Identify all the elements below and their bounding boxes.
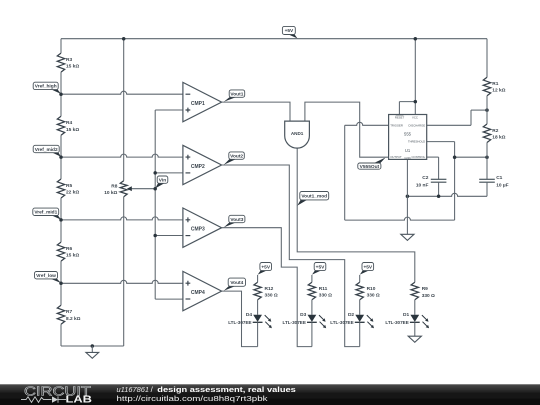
svg-text:555: 555	[404, 131, 412, 136]
svg-text:R12: R12	[265, 286, 274, 292]
svg-text:15 kΩ: 15 kΩ	[66, 253, 79, 259]
svg-text:R4: R4	[66, 120, 72, 126]
svg-text:15 kΩ: 15 kΩ	[66, 127, 79, 133]
svg-text:10 µF: 10 µF	[496, 183, 508, 189]
svg-text:+5V: +5V	[316, 264, 325, 270]
svg-text:330 Ω: 330 Ω	[265, 293, 278, 299]
svg-text:R8: R8	[111, 184, 117, 190]
svg-text:CONTROL: CONTROL	[412, 155, 426, 159]
svg-text:330 Ω: 330 Ω	[367, 293, 380, 299]
svg-text:LTL-307EE: LTL-307EE	[385, 320, 408, 325]
svg-text:Vout1_mod: Vout1_mod	[301, 193, 327, 199]
svg-text:D3: D3	[300, 312, 306, 318]
svg-text:CMP1: CMP1	[191, 101, 205, 107]
svg-text:LTL-307EE: LTL-307EE	[282, 320, 305, 325]
svg-text:18 kΩ: 18 kΩ	[492, 134, 505, 140]
svg-text:Vout3: Vout3	[230, 217, 243, 223]
svg-text:D2: D2	[348, 312, 354, 318]
svg-text:VCC: VCC	[412, 115, 418, 119]
svg-text:GND: GND	[404, 156, 410, 160]
svg-text:R3: R3	[66, 57, 72, 63]
svg-text:8.2 kΩ: 8.2 kΩ	[66, 316, 81, 322]
svg-text:U1: U1	[405, 148, 411, 153]
svg-text:R5: R5	[66, 183, 72, 189]
svg-text:AND1: AND1	[291, 131, 304, 136]
svg-text:R6: R6	[66, 246, 72, 252]
svg-text:http://circuitlab.com/cu8h8q7r: http://circuitlab.com/cu8h8q7rt3pbk	[117, 394, 268, 403]
svg-text:D4: D4	[246, 312, 252, 318]
svg-text:LTL-307EE: LTL-307EE	[228, 320, 251, 325]
svg-text:330 Ω: 330 Ω	[422, 293, 435, 299]
svg-text:R1: R1	[492, 81, 498, 87]
svg-text:LAB: LAB	[66, 395, 93, 405]
svg-text:Vref_mid1: Vref_mid1	[34, 210, 57, 216]
svg-text:15 kΩ: 15 kΩ	[66, 64, 79, 70]
svg-text:C1: C1	[496, 175, 502, 181]
svg-text:Vref_mid2: Vref_mid2	[35, 147, 58, 153]
svg-text:+5V: +5V	[285, 28, 294, 34]
svg-text:design assessment, real values: design assessment, real values	[157, 385, 295, 394]
svg-text:+5V: +5V	[261, 264, 270, 270]
svg-text:Vref_high: Vref_high	[35, 84, 57, 90]
svg-text:D1: D1	[403, 312, 409, 318]
svg-text:R9: R9	[422, 286, 428, 292]
svg-text:C2: C2	[422, 175, 428, 181]
svg-text:V555Out: V555Out	[360, 164, 380, 170]
svg-text:u1167861: u1167861	[117, 385, 150, 394]
svg-text:10 kΩ: 10 kΩ	[104, 190, 117, 196]
svg-text:10 nF: 10 nF	[416, 183, 429, 189]
svg-text:DISCHARGE: DISCHARGE	[409, 123, 426, 127]
svg-text:TRIGGER: TRIGGER	[390, 123, 403, 127]
svg-text:Vout2: Vout2	[230, 153, 243, 159]
svg-text:Vout1: Vout1	[230, 91, 243, 97]
svg-text:CMP2: CMP2	[191, 164, 205, 170]
svg-text:CMP4: CMP4	[191, 290, 205, 296]
svg-text:Vout4: Vout4	[230, 280, 243, 286]
svg-text:22 kΩ: 22 kΩ	[66, 190, 79, 196]
svg-text:R2: R2	[492, 128, 498, 134]
svg-text:LTL-307EE: LTL-307EE	[330, 320, 353, 325]
svg-text:Vref_low: Vref_low	[36, 273, 56, 279]
svg-text:OUTPUT: OUTPUT	[390, 155, 402, 159]
svg-text:+5V: +5V	[363, 264, 372, 270]
svg-text:R10: R10	[367, 286, 376, 292]
svg-text:Vin: Vin	[159, 177, 166, 183]
svg-text:R11: R11	[319, 286, 328, 292]
svg-text:CMP3: CMP3	[191, 227, 205, 233]
svg-text:THRESHOLD: THRESHOLD	[408, 140, 425, 144]
svg-text:12 kΩ: 12 kΩ	[492, 87, 505, 93]
svg-text:R7: R7	[66, 309, 72, 315]
svg-text:RESET: RESET	[395, 115, 405, 119]
svg-text:330 Ω: 330 Ω	[319, 293, 332, 299]
